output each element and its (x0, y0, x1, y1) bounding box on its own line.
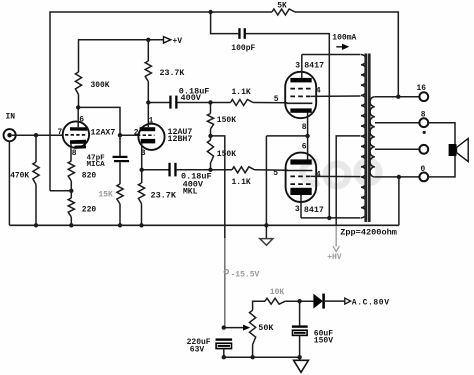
junction cathodes (305, 134, 309, 138)
resistor 1.1K lower (232, 167, 255, 173)
resistor 300K (75, 72, 81, 95)
diode D1 (313, 294, 323, 309)
terminal 16 (419, 92, 428, 101)
V2 cathode (141, 139, 156, 144)
wire V4 screen tap (311, 175, 361, 177)
wire wiper arrow (224, 327, 244, 329)
junction V2 plate node (146, 100, 150, 104)
wire V4 plate to primary (301, 217, 361, 219)
tube V1 12AX7 envelope (63, 121, 89, 147)
wire grid node down (119, 135, 121, 156)
arrow +V (164, 37, 171, 43)
capacitor 47pF (113, 156, 128, 158)
ground symbol bias (299, 357, 301, 360)
svg-text:10K: 10K (270, 288, 285, 297)
V2 cathode lead (141, 143, 143, 169)
svg-text:1.1K: 1.1K (232, 88, 251, 97)
svg-text:23.7K: 23.7K (151, 191, 177, 201)
V1 cathode lead (70, 144, 72, 162)
corner 300K top (78, 39, 80, 72)
wire input to grid (12, 134, 64, 136)
svg-text:6: 6 (79, 116, 84, 125)
svg-text:5K: 5K (277, 1, 287, 10)
svg-text:8: 8 (72, 149, 77, 158)
svg-text:1: 1 (149, 117, 154, 126)
wire cathode to cap (142, 169, 170, 171)
transformer T1 primary winding (361, 55, 366, 218)
V3 grid1 (287, 102, 313, 104)
wire 100pF branch (211, 12, 239, 34)
svg-text:150V: 150V (314, 337, 333, 346)
svg-text:5: 5 (273, 169, 278, 178)
V4 plate (290, 188, 311, 195)
svg-text:MICA: MICA (87, 161, 106, 169)
capacitor 60uF (299, 301, 301, 326)
svg-text:8: 8 (421, 111, 426, 120)
junction 15K/ground bus (118, 223, 122, 227)
speaker LS1 (449, 144, 457, 156)
V3 plate (290, 78, 311, 83)
V4 cathode lead (307, 136, 309, 160)
junction top/100pF (208, 10, 212, 14)
tube V3 8417 envelope (285, 72, 316, 118)
tube V4 8417 envelope (286, 153, 317, 202)
ground symbol main (265, 225, 267, 238)
wire V3 plate to primary (302, 54, 361, 56)
V4 grid3 dashes (290, 183, 311, 185)
wire plate to coupling cap (148, 102, 170, 104)
transformer T1 core (364, 54, 370, 223)
svg-text:A.C.80V: A.C.80V (352, 298, 390, 307)
resistor 10K (265, 298, 285, 304)
resistor 470K (35, 135, 37, 162)
svg-text:300K: 300K (91, 81, 110, 90)
junction pot bottom (250, 355, 254, 359)
junction 220/ground bus (69, 223, 73, 227)
resistor 150K upper (210, 103, 212, 114)
svg-text:100pF: 100pF (231, 44, 255, 53)
svg-text:400V: 400V (181, 93, 202, 103)
svg-text:12AX7: 12AX7 (91, 129, 116, 138)
resistor 220 (70, 191, 72, 198)
wire top right (295, 12, 398, 97)
wire feedback top (50, 12, 272, 191)
wire V3 screen tap (311, 95, 361, 97)
svg-text:23.7K: 23.7K (160, 69, 185, 78)
junction 0 tap/ground riser (397, 175, 401, 179)
wire pot top to 10K (253, 301, 265, 310)
junction lower grid/150K (208, 168, 212, 172)
node -15.5V (224, 270, 228, 274)
junction plate/300K (76, 105, 80, 109)
junction +V/23.7K (146, 38, 150, 42)
svg-text:150K: 150K (217, 116, 236, 125)
svg-text:8417: 8417 (304, 62, 324, 71)
resistor 820 (68, 161, 74, 181)
arrow +HV (333, 246, 339, 252)
terminal 4 (419, 145, 428, 154)
svg-text:+HV: +HV (327, 253, 342, 262)
wire 1.1K to V3 grid (253, 102, 288, 104)
junction bus/ground (264, 223, 268, 227)
V3 cathode lead (307, 112, 309, 135)
junction feedback/lower plate (327, 216, 331, 220)
wire bias bottom (223, 349, 225, 358)
svg-text:150K: 150K (217, 150, 236, 159)
wire cap to grid junction (178, 102, 231, 104)
wire 8 ohm tap (375, 122, 419, 124)
V4 cathode (290, 159, 311, 164)
svg-text:12BH7: 12BH7 (168, 135, 193, 144)
resistor 23.7K lower (141, 170, 143, 183)
wire speaker bottom (428, 156, 455, 177)
wire jack down (8, 141, 10, 225)
junction bias bottom (222, 355, 226, 359)
svg-text:220: 220 (82, 205, 97, 214)
junction bias divider (208, 134, 212, 138)
svg-text:+V: +V (173, 37, 183, 46)
junction bias/wiper (222, 325, 226, 329)
V2 plate (140, 127, 156, 131)
resistor 23.7K upper (147, 40, 149, 61)
input jack J1 (4, 129, 16, 141)
wire bottom rail (224, 356, 300, 358)
junction diode node (297, 299, 301, 303)
V4 grid2 dashes (290, 175, 311, 177)
capacitor 100pF (238, 28, 240, 39)
wire ground bus (9, 224, 399, 226)
wire HV gray (335, 226, 337, 247)
svg-text:820: 820 (82, 171, 97, 180)
capacitor 0.18uF upper (169, 96, 171, 109)
wire plate to grid node (78, 107, 120, 135)
svg-text:1.1K: 1.1K (232, 178, 251, 187)
V4 plate lead (300, 194, 302, 218)
V3 grid2 dashes (290, 88, 311, 90)
V2 plate lead (147, 103, 149, 128)
wire 100pF to plate line (246, 34, 329, 218)
node 4 ohm dot (423, 131, 426, 134)
junction 470K/ground bus (34, 223, 38, 227)
V1 plate lead (77, 107, 79, 127)
wire speaker top (428, 123, 455, 144)
arrow 100mA (336, 46, 343, 48)
wire 16 ohm tap (375, 96, 419, 98)
svg-text:3: 3 (295, 62, 300, 71)
resistor 15K (117, 184, 123, 204)
svg-text:3: 3 (141, 149, 146, 158)
wire V2 grid (120, 134, 139, 136)
svg-text:470K: 470K (10, 172, 29, 181)
V1 grid dashes (65, 134, 86, 136)
svg-text:100mA: 100mA (332, 33, 356, 42)
svg-text:63V: 63V (190, 346, 205, 355)
capacitor 220uF (216, 338, 233, 340)
junction upper grid/150K (208, 100, 212, 104)
wire cathode ground drop (265, 136, 267, 225)
tube V2 12AU7 envelope (138, 124, 164, 150)
svg-text:6: 6 (302, 143, 307, 152)
junction feedback/16ohm tap (396, 95, 400, 99)
svg-text:Zpp=4200ohm: Zpp=4200ohm (340, 228, 397, 238)
terminal 0 (419, 173, 428, 182)
wire center tap to HV (336, 136, 360, 226)
junction 23.7K/ground bus (139, 223, 143, 227)
terminal 8 (419, 118, 428, 127)
wire bias tap (211, 136, 225, 238)
svg-text:MKL: MKL (183, 187, 198, 196)
junction V2 grid (118, 133, 122, 137)
junction input/470K (34, 133, 38, 137)
svg-text:0: 0 (421, 165, 426, 174)
svg-text:5: 5 (274, 95, 279, 104)
V3 grid3 dashes (290, 95, 311, 97)
V2 grid dashes (137, 134, 155, 136)
wire 4 ohm tap (375, 148, 419, 150)
svg-text:15K: 15K (99, 191, 113, 200)
wire cap to lower grid junction (177, 169, 232, 171)
wire +V rail (79, 39, 164, 41)
svg-text:4: 4 (316, 87, 321, 96)
resistor 150K lower (210, 136, 212, 140)
wire 10K to diode node (285, 300, 313, 302)
svg-text:8: 8 (302, 123, 307, 132)
V3 cathode (290, 108, 311, 112)
wire diode out (325, 300, 345, 302)
arrow AC out (345, 298, 351, 304)
V3 plate lead (301, 55, 303, 78)
svg-text:4: 4 (316, 170, 321, 179)
wire 1.1K to V4 grid (255, 169, 289, 172)
wire 0 tap to ground bus (398, 177, 400, 225)
potentiometer 50K (250, 310, 256, 344)
V1 plate (70, 127, 87, 131)
svg-text:8417: 8417 (304, 206, 324, 215)
wire bias line lower (224, 238, 226, 328)
V4 grid1 (287, 170, 313, 172)
svg-text:IN: IN (6, 113, 16, 122)
V1 cathode (70, 140, 86, 144)
resistor 1.1K upper (231, 100, 254, 106)
svg-text:16: 16 (417, 84, 427, 93)
svg-text:50K: 50K (258, 323, 274, 333)
svg-text:-15.5V: -15.5V (231, 270, 260, 279)
junction 60uF bottom (297, 355, 301, 359)
junction 820/220/feedback (69, 189, 73, 193)
junction V2 cathode node (140, 168, 144, 172)
svg-text:7: 7 (58, 128, 63, 137)
wire 0 tap (375, 176, 419, 178)
resistor 5K (272, 9, 295, 15)
capacitor 0.18uF lower (168, 163, 170, 177)
transformer T1 secondary winding (370, 97, 375, 177)
svg-text:3: 3 (295, 205, 300, 214)
wire cathodes to ground drop (266, 135, 307, 137)
